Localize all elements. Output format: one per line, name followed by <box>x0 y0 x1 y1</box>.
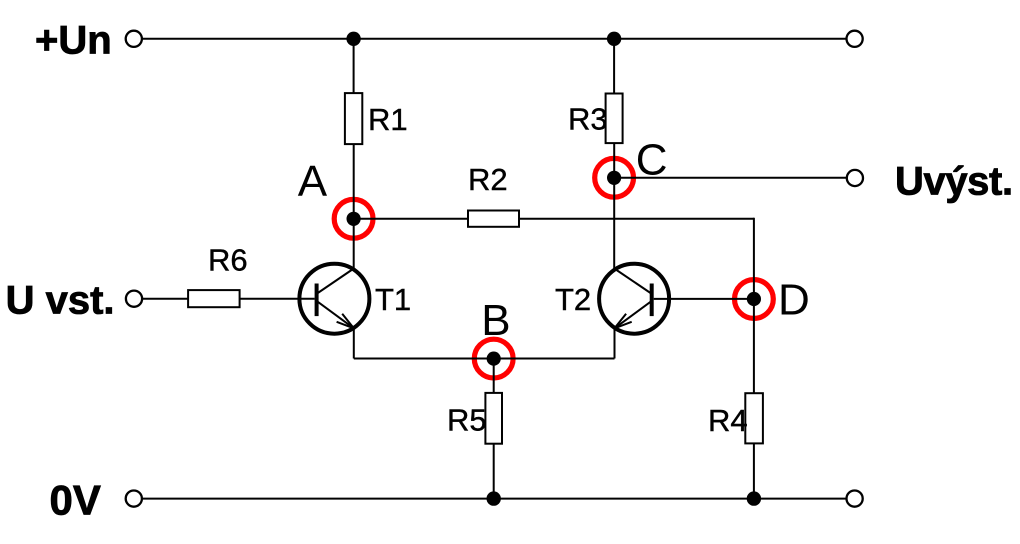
svg-text:+Un: +Un <box>35 19 112 63</box>
wire input terminal to R6 <box>134 298 189 300</box>
node B red ring <box>474 339 513 378</box>
svg-text:A: A <box>298 157 328 206</box>
terminal U vst input <box>126 291 142 307</box>
wire T1 emitter down <box>353 327 355 359</box>
wire T2 emitter down <box>614 327 616 359</box>
svg-text:R5: R5 <box>447 402 487 437</box>
resistor R2 <box>468 211 519 227</box>
wire R3 to node C to T2 collector <box>613 142 615 269</box>
transistor T2 base bar <box>650 284 654 317</box>
node A red ring <box>334 199 373 238</box>
wire emitters to node B <box>354 358 615 360</box>
svg-text:D: D <box>778 275 810 324</box>
svg-text:T2: T2 <box>555 282 591 317</box>
svg-text:Uvýst.: Uvýst. <box>895 160 1013 204</box>
svg-text:R2: R2 <box>468 162 508 197</box>
wire corner down to node D <box>753 218 755 299</box>
resistor R4 <box>745 393 763 443</box>
junction dot top rail left <box>346 32 360 46</box>
resistor R6 <box>188 290 240 307</box>
svg-text:R3: R3 <box>568 102 608 137</box>
terminal +Un right <box>847 31 863 47</box>
transistor T1 emitter arrow <box>337 314 354 329</box>
transistor T2 body circle <box>599 264 669 334</box>
junction dot bottom rail right <box>747 491 761 505</box>
wire node A through R2 to corner <box>354 218 754 220</box>
terminal 0V left <box>126 491 142 507</box>
terminal Uvyst <box>847 170 863 186</box>
svg-text:C: C <box>636 135 668 184</box>
wire node D to R4 to rail <box>753 299 755 499</box>
wire rail to R3 <box>613 39 615 95</box>
node D red ring <box>735 280 774 319</box>
node D dot <box>747 292 761 306</box>
wire rail to R1 <box>353 39 355 94</box>
resistor R3 <box>606 94 623 144</box>
junction dot top rail right <box>607 32 621 46</box>
wire 0V bottom rail <box>134 498 855 500</box>
node A dot <box>347 212 361 226</box>
svg-text:R6: R6 <box>208 243 248 278</box>
wire node B to R5 to rail <box>493 359 495 499</box>
terminal 0V right <box>847 491 863 507</box>
svg-text:R4: R4 <box>708 403 748 438</box>
terminal +Un left <box>126 31 142 47</box>
wire T2 base to node D <box>654 298 754 300</box>
svg-text:T1: T1 <box>375 282 411 317</box>
transistor T1 emitter diagonal <box>318 302 354 329</box>
svg-text:R1: R1 <box>368 102 408 137</box>
wire R1 to node A to T1 collector <box>353 143 355 269</box>
resistor R5 <box>485 393 502 444</box>
transistor T1 base bar <box>315 284 319 317</box>
transistor T2 collector diagonal <box>614 269 650 294</box>
node C dot <box>607 171 621 185</box>
transistor T1 body circle <box>299 264 369 334</box>
svg-text:B: B <box>481 296 510 345</box>
transistor T2 emitter diagonal <box>615 302 651 329</box>
junction dot bottom rail left <box>487 491 501 505</box>
svg-text:0V: 0V <box>50 477 101 524</box>
wire +Un top rail <box>134 38 855 40</box>
resistor R1 <box>345 93 362 144</box>
transistor T1 collector diagonal <box>318 269 354 294</box>
node C red ring <box>595 158 634 197</box>
node B dot <box>487 352 501 366</box>
svg-text:U vst.: U vst. <box>6 279 115 323</box>
wire node C to output terminal <box>614 177 855 179</box>
transistor T2 emitter arrow <box>615 314 632 329</box>
wire R6 to T1 base <box>239 298 315 300</box>
